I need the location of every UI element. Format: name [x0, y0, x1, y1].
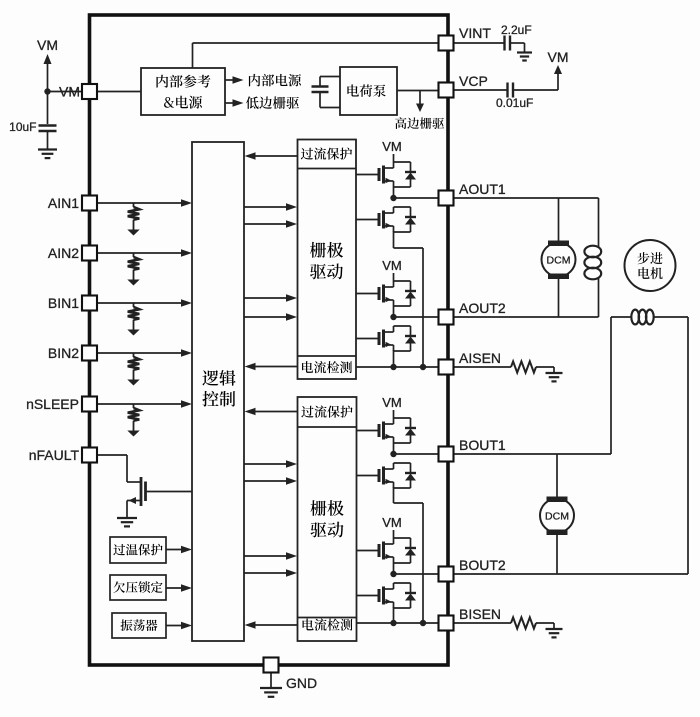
- svg-text:AOUT1: AOUT1: [459, 181, 506, 197]
- svg-text:BOUT2: BOUT2: [459, 557, 506, 573]
- svg-text:VCP: VCP: [459, 73, 488, 89]
- svg-text:VM: VM: [382, 395, 402, 410]
- svg-text:BOUT1: BOUT1: [459, 437, 506, 453]
- svg-text:BIN1: BIN1: [48, 295, 79, 311]
- svg-text:VINT: VINT: [459, 25, 491, 41]
- svg-text:DCM: DCM: [545, 510, 569, 522]
- svg-text:AIN1: AIN1: [48, 195, 79, 211]
- svg-text:AISEN: AISEN: [459, 350, 501, 366]
- svg-text:0.01uF: 0.01uF: [496, 96, 533, 110]
- svg-text:DCM: DCM: [547, 254, 571, 266]
- svg-text:VM: VM: [548, 49, 569, 65]
- svg-text:nSLEEP: nSLEEP: [26, 396, 79, 412]
- svg-text:VM: VM: [37, 37, 58, 53]
- svg-text:VM: VM: [382, 139, 402, 154]
- svg-text:BISEN: BISEN: [459, 606, 501, 622]
- svg-text:2.2uF: 2.2uF: [501, 23, 532, 37]
- svg-text:VM: VM: [382, 258, 402, 273]
- svg-text:VM: VM: [382, 515, 402, 530]
- svg-text:nFAULT: nFAULT: [29, 447, 80, 463]
- svg-text:AOUT2: AOUT2: [459, 300, 506, 316]
- svg-text:GND: GND: [286, 675, 317, 691]
- svg-text:VM: VM: [59, 84, 80, 100]
- svg-text:AIN2: AIN2: [48, 245, 79, 261]
- svg-text:10uF: 10uF: [9, 120, 36, 134]
- svg-text:BIN2: BIN2: [48, 345, 79, 361]
